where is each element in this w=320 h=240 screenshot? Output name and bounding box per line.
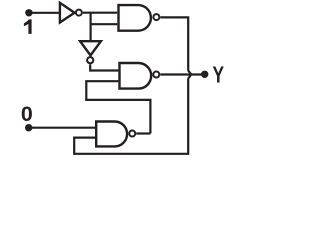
svg-text:Y: Y — [213, 62, 225, 88]
svg-text:0: 0 — [21, 102, 33, 126]
